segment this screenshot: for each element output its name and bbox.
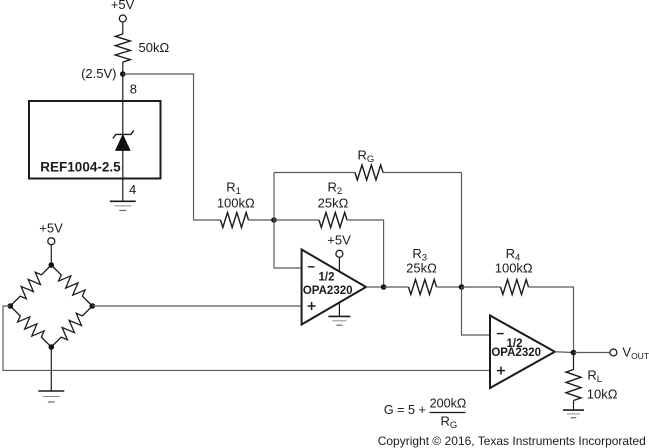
resistor R1 <box>221 213 249 228</box>
svg-text:25kΩ: 25kΩ <box>318 196 349 211</box>
bridge resistor bottom-right arm <box>51 306 92 347</box>
op-amp U2 minus sign <box>497 333 504 335</box>
resistor R4 <box>501 280 529 295</box>
bridge resistor bottom-left arm <box>10 306 51 347</box>
svg-text:+5V: +5V <box>111 0 135 12</box>
svg-text:100kΩ: 100kΩ <box>495 261 533 276</box>
wire output node to RL <box>573 353 575 371</box>
wire zener anode to ground <box>122 150 124 201</box>
svg-text:OPA2320: OPA2320 <box>303 285 353 297</box>
svg-text:4: 4 <box>129 182 136 197</box>
power +5V terminal (REF branch) <box>119 15 126 22</box>
wire node B down to U2 inverting input <box>462 287 491 335</box>
label RL <box>587 368 602 386</box>
label 100kOhm (R1) <box>217 196 255 211</box>
svg-text:100kΩ: 100kΩ <box>217 196 255 211</box>
node C dot (output/R2/R3) <box>381 284 387 290</box>
pin 4 label <box>129 182 136 197</box>
label 100kOhm (R4) <box>495 261 533 276</box>
svg-text:8: 8 <box>130 82 137 97</box>
wire RL to ground <box>573 401 575 410</box>
wire R1 to node A <box>249 219 275 221</box>
wire R2 to output elbow <box>347 220 384 287</box>
op-amp U1 plus sign <box>308 302 316 310</box>
wire node A up to RG rail <box>273 173 275 221</box>
svg-text:1/2: 1/2 <box>319 272 335 284</box>
wire to R1 <box>194 219 221 221</box>
wire U1 output to node C <box>366 286 384 288</box>
terminal VOUT <box>610 349 617 356</box>
label R1 <box>226 180 241 198</box>
rg rail wire left <box>274 172 355 174</box>
copyright line <box>378 434 646 448</box>
wire node B to R4 <box>462 286 501 288</box>
wire 2.5V node to right elbow <box>123 74 194 220</box>
op-amp U1 label 1/2 <box>319 272 335 284</box>
resistor 50k (vertical) <box>115 34 130 62</box>
svg-text:G = 5 +: G = 5 + <box>384 403 426 417</box>
power +5V terminal (bridge) <box>48 238 55 245</box>
bridge bottom node dot <box>49 344 55 350</box>
label R3 <box>412 246 427 264</box>
wire U2 output to output node <box>555 351 574 354</box>
power +5V terminal (U1) <box>336 250 343 257</box>
node B dot (R3/R4/RG) <box>459 284 465 290</box>
op-amp U2 plus sign <box>497 367 505 375</box>
pin 8 label <box>130 82 137 97</box>
ground (bridge) <box>38 391 64 402</box>
zener diode triangle (anode) <box>116 135 130 151</box>
ground (U1) <box>328 316 350 325</box>
node A dot (R1/R2/RG/inverting input) <box>271 217 277 223</box>
op-amp U1 minus sign <box>308 266 315 268</box>
node VOUT dot <box>571 350 577 356</box>
resistor RG <box>355 165 383 180</box>
ground (RL) <box>563 410 584 418</box>
op-amp U2 (1/2 OPA2320) triangle <box>490 316 555 389</box>
label (2.5V) <box>81 66 116 81</box>
resistor R2 <box>319 213 347 228</box>
zener diode cathode bar <box>113 130 134 138</box>
wire R4 to output elbow <box>529 287 574 353</box>
svg-text:Copyright © 2016, Texas Instru: Copyright © 2016, Texas Instruments Inco… <box>378 434 646 448</box>
svg-text:REF1004-2.5: REF1004-2.5 <box>40 160 121 175</box>
wire terminal to R top <box>122 22 124 34</box>
wire bridge bottom node to ground <box>50 347 52 391</box>
op-amp U2 label 1/2 <box>507 338 523 350</box>
op-amp U1 label OPA2320 <box>303 285 353 297</box>
wire output node to VOUT terminal <box>574 352 611 354</box>
gain formula G = 5 + 200k/RG <box>384 396 466 431</box>
svg-text:200kΩ: 200kΩ <box>430 396 467 410</box>
label 50kOhm <box>139 40 170 55</box>
label REF1004-2.5 <box>40 160 121 175</box>
bridge right node dot <box>90 303 96 309</box>
REF1004 box <box>29 101 161 179</box>
node 2.5V junction dot <box>120 71 126 77</box>
power +5V label (REF branch) <box>111 0 135 12</box>
power +5V label (bridge) <box>39 221 63 236</box>
wire bridge supply <box>50 245 52 265</box>
ground (REF1004) <box>110 201 136 210</box>
wire bridge right node to opamp1 +input <box>92 305 301 307</box>
wire bridge left node to opamp2 +input (bottom rail) <box>3 306 490 370</box>
bridge left node dot <box>8 303 14 309</box>
wire U1 to ground <box>338 303 340 316</box>
wire 2.5V node down to zener cathode <box>122 74 124 134</box>
svg-text:10kΩ: 10kΩ <box>587 386 618 401</box>
op-amp U2 label OPA2320 <box>491 347 541 359</box>
bridge resistor top-right arm <box>51 265 92 306</box>
label VOUT <box>622 345 649 362</box>
power +5V label (U1) <box>327 233 351 248</box>
op-amp U1 (1/2 OPA2320) triangle <box>302 250 366 325</box>
wire node A down to inverting input <box>274 220 302 268</box>
svg-text:(2.5V): (2.5V) <box>81 66 116 81</box>
svg-text:+5V: +5V <box>39 221 63 236</box>
label R2 <box>328 180 343 198</box>
svg-text:50kΩ: 50kΩ <box>139 40 170 55</box>
svg-text:25kΩ: 25kΩ <box>406 261 437 276</box>
svg-text:OPA2320: OPA2320 <box>491 347 541 359</box>
label 25kOhm (R2) <box>318 196 349 211</box>
resistor R3 <box>409 280 437 295</box>
wire U1 supply <box>338 257 340 272</box>
label 10kOhm (RL) <box>587 386 618 401</box>
bridge top node dot <box>49 262 55 268</box>
wire R bottom to 2.5V node <box>122 62 124 74</box>
wire RG rail down to node B <box>461 173 463 288</box>
label RG <box>358 148 375 166</box>
wire R3 to node B <box>437 286 462 288</box>
wire node A to R2 <box>274 219 319 221</box>
label R4 <box>506 246 521 264</box>
svg-text:+5V: +5V <box>327 233 351 248</box>
resistor RL (vertical) <box>566 370 581 401</box>
wire node C to R3 <box>384 286 409 288</box>
label 25kOhm (R3) <box>406 261 437 276</box>
rg rail wire right <box>383 172 462 174</box>
bridge resistor top-left arm <box>10 265 51 306</box>
